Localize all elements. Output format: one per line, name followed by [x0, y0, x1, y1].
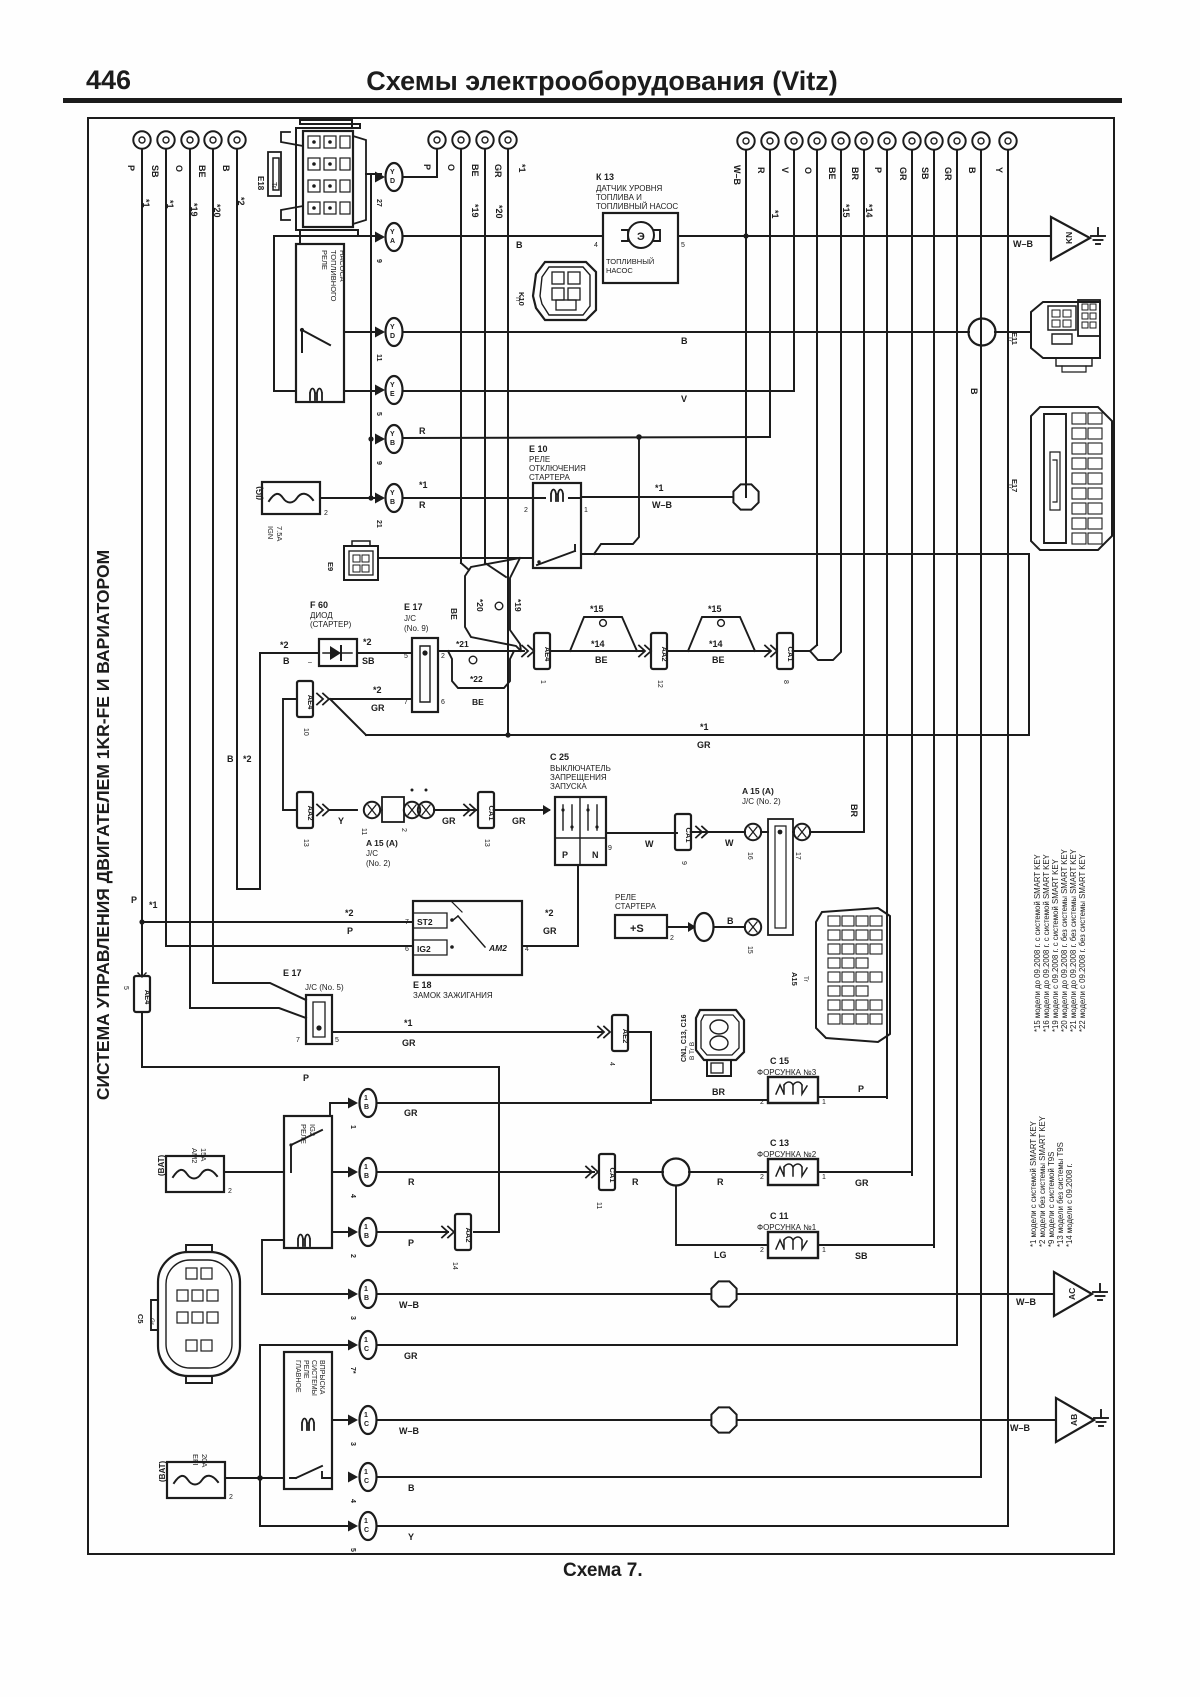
prongs left: [268, 132, 303, 220]
svg-text:W–B: W–B: [732, 165, 742, 186]
svg-text:ДИОД: ДИОД: [310, 611, 333, 620]
svg-text:*9 модели с системой T9S: *9 модели с системой T9S: [1047, 1152, 1056, 1247]
svg-text:W–B: W–B: [399, 1426, 420, 1436]
svg-text:P: P: [562, 850, 568, 860]
svg-text:B: B: [364, 1173, 369, 1180]
svg-text:P: P: [347, 926, 353, 936]
node P (left group): [126, 131, 151, 207]
svg-text:CA1: CA1: [608, 1167, 617, 1182]
wire B row y=1477: [378, 1476, 981, 1478]
svg-text:РЕЛЕ: РЕЛЕ: [302, 1360, 309, 1379]
svg-text:SB: SB: [150, 165, 160, 178]
wire P mid stub: [436, 149, 438, 177]
wire Y row y=1526: [378, 1525, 1008, 1527]
wire W-B right: [745, 150, 747, 497]
svg-text:6: 6: [441, 699, 445, 706]
svg-text:SB: SB: [920, 167, 930, 180]
svg-text:*13 модели без системы T9S: *13 модели без системы T9S: [1056, 1142, 1065, 1247]
node W-B (right group): [732, 132, 755, 185]
svg-text:GR: GR: [543, 926, 557, 936]
oval YA 9: [375, 223, 403, 263]
svg-text:E 10: E 10: [529, 444, 548, 454]
oval 1B R: [348, 1158, 377, 1198]
oval YB 9: [375, 425, 403, 465]
svg-text:10: 10: [302, 728, 309, 736]
svg-text:1: 1: [364, 1337, 368, 1344]
node P: [873, 132, 896, 173]
header rule: [63, 98, 1122, 103]
svg-text:15: 15: [746, 946, 753, 954]
wire W-B row y=1420 to AB ground: [378, 1419, 1056, 1421]
svg-text:*15: *15: [708, 604, 722, 614]
oval 1C GR: [348, 1331, 377, 1374]
svg-text:ДАТЧИК УРОВНЯ: ДАТЧИК УРОВНЯ: [596, 184, 663, 193]
wire GR *2 from J/C9 to AE4#10: [330, 698, 412, 700]
svg-text:*20: *20: [494, 205, 504, 219]
wire CA1 to nodes O/BE: [793, 645, 841, 660]
wire B right: [980, 150, 982, 1477]
svg-text:ТОПЛИВА И: ТОПЛИВА И: [596, 193, 642, 202]
node BE: [197, 131, 222, 217]
wire O right: [816, 150, 818, 645]
wire W-B row y=1294 to AC ground: [378, 1293, 1054, 1295]
svg-text:A: A: [390, 238, 395, 245]
coil return loop to W-B oval: [262, 1240, 354, 1294]
svg-text:D: D: [390, 178, 395, 185]
svg-text:B: B: [967, 167, 977, 174]
svg-text:*14 модели с 09.2008 г.: *14 модели с 09.2008 г.: [1065, 1163, 1074, 1247]
wire GR right: [911, 150, 913, 1175]
svg-text:P: P: [408, 1238, 414, 1248]
svg-text:2: 2: [670, 935, 674, 942]
wire W-B / fuel pump row y=236: [403, 235, 603, 237]
svg-text:R: R: [419, 500, 426, 510]
svg-text:AM2: AM2: [190, 1148, 199, 1163]
junction dot W-B at node 746: [743, 233, 748, 238]
svg-text:AA2: AA2: [464, 1227, 473, 1242]
wire IG fuse to oval YB21: [320, 497, 381, 499]
svg-text:1: 1: [364, 1095, 368, 1102]
svg-text:B: B: [727, 916, 734, 926]
svg-text:*2: *2: [280, 640, 289, 650]
svg-text:2: 2: [524, 507, 528, 514]
svg-text:2: 2: [760, 1247, 764, 1254]
svg-text:Y: Y: [390, 490, 395, 497]
svg-text:Tr: Tr: [270, 182, 277, 189]
svg-text:ОТКЛЮЧЕНИЯ: ОТКЛЮЧЕНИЯ: [529, 464, 586, 473]
svg-text:ФОРСУНКА №3: ФОРСУНКА №3: [757, 1068, 817, 1077]
wire R row y=1172: [378, 1171, 594, 1173]
svg-text:*15: *15: [841, 204, 851, 218]
svg-text:B: B: [408, 1483, 415, 1493]
node GR: [493, 131, 527, 178]
svg-text:ВПРЫСКА: ВПРЫСКА: [318, 1360, 325, 1395]
svg-text:CA1: CA1: [487, 805, 496, 820]
svg-text:4: 4: [349, 1194, 356, 1198]
node Y: [994, 132, 1017, 173]
svg-text:A 15 (A): A 15 (A): [742, 786, 774, 796]
svg-text:Y: Y: [390, 382, 395, 389]
svg-text:Tr: Tr: [1006, 483, 1013, 490]
feed wire from node B branch: [260, 652, 412, 654]
node GR: [943, 132, 966, 181]
svg-text:J/C: J/C: [366, 849, 378, 858]
svg-text:*1: *1: [419, 480, 428, 490]
svg-text:BE: BE: [472, 697, 484, 707]
svg-text:A 15 (A): A 15 (A): [366, 838, 398, 848]
svg-text:KN: KN: [1064, 232, 1074, 244]
svg-text:ФОРСУНКА №2: ФОРСУНКА №2: [757, 1150, 817, 1159]
wire B row y=332 to splice/E11: [403, 331, 969, 333]
svg-text:F 60: F 60: [310, 600, 328, 610]
svg-text:GR: GR: [442, 816, 456, 826]
svg-text:R: R: [632, 1177, 639, 1187]
svg-text:ЗАМОК ЗАЖИГАНИЯ: ЗАМОК ЗАЖИГАНИЯ: [413, 991, 493, 1000]
svg-text:W–B: W–B: [1016, 1297, 1037, 1307]
inner grid cells: [308, 136, 350, 214]
svg-text:9: 9: [375, 461, 382, 465]
wire R row y=436: [403, 437, 770, 438]
svg-text:GR: GR: [402, 1038, 416, 1048]
feeds from node BE and node O: [213, 983, 306, 1000]
upper variant funnel right edge: [510, 558, 521, 651]
svg-text:B: B: [283, 656, 290, 666]
wire V row y=391: [403, 390, 794, 392]
box AE4 pin1: [534, 633, 552, 684]
svg-text:4: 4: [349, 1499, 356, 1503]
svg-text:GR: GR: [512, 816, 526, 826]
svg-text:*2: *2: [363, 637, 372, 647]
svg-text:ЗАПУСКА: ЗАПУСКА: [550, 782, 587, 791]
svg-text:*16 модели до 09.2008 г. с си: *16 модели до 09.2008 г. с системой SMAR…: [1042, 853, 1051, 1032]
junction dots: [368, 436, 373, 441]
svg-text:7*: 7*: [349, 1367, 356, 1374]
svg-text:B: B: [681, 336, 688, 346]
branch up to R wire: [594, 437, 639, 554]
svg-text:2: 2: [760, 1099, 764, 1106]
right side pins to ovals: [344, 332, 379, 391]
svg-text:AE4: AE4: [543, 647, 552, 662]
oval 1B GR: [348, 1089, 377, 1129]
upper variant funnel left edge: [465, 558, 521, 651]
svg-text:BR: BR: [712, 1087, 725, 1097]
svg-text:(BAT): (BAT): [158, 1460, 167, 1482]
vertical bus x=371: [370, 174, 372, 498]
svg-text:C 15: C 15: [770, 1056, 789, 1066]
svg-text:E 17: E 17: [283, 968, 302, 978]
svg-text:C: C: [364, 1478, 369, 1485]
svg-text:B Tr B: B Tr B: [689, 1042, 696, 1060]
svg-text:–: –: [308, 659, 312, 666]
svg-text:2: 2: [441, 653, 445, 660]
svg-text:13: 13: [483, 839, 490, 847]
wire P left: [141, 149, 143, 976]
svg-text:*15: *15: [590, 604, 604, 614]
svg-text:ФОРСУНКА №1: ФОРСУНКА №1: [757, 1223, 817, 1232]
svg-text:AA2: AA2: [306, 805, 315, 820]
svg-text:ТОПЛИВНЫЙ: ТОПЛИВНЫЙ: [606, 257, 654, 266]
svg-text:GR: GR: [943, 167, 953, 181]
oval YD 27: [375, 163, 403, 207]
oval YD 11: [375, 318, 403, 362]
svg-text:AE2: AE2: [621, 1029, 630, 1044]
node BE: [470, 131, 504, 218]
svg-text:W–B: W–B: [1013, 239, 1034, 249]
svg-text:СИСТЕМА УПРАВЛЕНИЯ ДВИГАТЕЛЕМ: СИСТЕМА УПРАВЛЕНИЯ ДВИГАТЕЛЕМ 1KR-FE И В…: [93, 550, 113, 1100]
svg-text:N: N: [592, 850, 599, 860]
svg-text:EFI: EFI: [191, 1454, 200, 1466]
svg-text:O: O: [803, 167, 813, 174]
svg-text:Y: Y: [390, 431, 395, 438]
svg-text:4: 4: [525, 946, 529, 953]
svg-text:BE: BE: [470, 164, 480, 177]
oval 1C B: [348, 1463, 377, 1503]
node O: [174, 131, 199, 216]
svg-text:2: 2: [760, 1174, 764, 1181]
svg-text:2: 2: [400, 828, 407, 832]
wire AE4 to AA2 with variant bridge: [550, 617, 643, 651]
svg-text:1: 1: [364, 1412, 368, 1419]
pump motor: [628, 222, 654, 248]
wire BE left: [212, 149, 214, 983]
svg-text:*22: *22: [470, 674, 483, 684]
merge arrows into AE4: [522, 646, 534, 657]
wire AA2 to CA1 with variant bridge: [667, 617, 769, 651]
svg-text:SB: SB: [362, 656, 375, 666]
svg-text:Y: Y: [338, 816, 344, 826]
svg-text:3: 3: [349, 1316, 356, 1320]
pin boxes ST2 / IG2: [413, 913, 447, 955]
svg-text:BE: BE: [449, 608, 459, 620]
svg-text:5: 5: [681, 242, 685, 249]
wire BE right: [840, 150, 842, 651]
svg-text:1: 1: [364, 1224, 368, 1231]
node P (mid group): [422, 131, 446, 170]
svg-text:IGN: IGN: [266, 526, 275, 539]
svg-text:CN1, C13, C16: CN1, C13, C16: [681, 1014, 688, 1062]
svg-text:(СТАРТЕР): (СТАРТЕР): [310, 620, 352, 629]
svg-text:B: B: [390, 499, 395, 506]
svg-text:Gr: Gr: [148, 1318, 155, 1326]
svg-text:5: 5: [335, 1037, 339, 1044]
wire labels top: [419, 240, 688, 510]
svg-text:1: 1: [539, 680, 546, 684]
wire O left: [189, 149, 191, 1008]
svg-text:Y: Y: [390, 169, 395, 176]
svg-text:+S: +S: [630, 923, 644, 935]
svg-text:B: B: [364, 1295, 369, 1302]
svg-text:*21 модели до 09.2008 г. без: *21 модели до 09.2008 г. без системы SMA…: [1069, 848, 1078, 1032]
svg-text:E 17: E 17: [404, 602, 423, 612]
svg-text:21: 21: [375, 520, 382, 528]
svg-text:BE: BE: [595, 655, 608, 665]
svg-text:*20: *20: [475, 599, 485, 612]
svg-text:GR: GR: [898, 167, 908, 181]
ST2 wire from node P: [142, 921, 413, 923]
svg-text:НАСОСА: НАСОСА: [338, 250, 347, 282]
svg-text:2: 2: [228, 1188, 232, 1195]
svg-text:7: 7: [404, 699, 408, 706]
svg-text:AE4: AE4: [306, 695, 315, 710]
svg-text:12: 12: [656, 680, 663, 688]
oval YE 5: [375, 376, 403, 416]
wire oval YD27 to node P mid: [403, 176, 437, 178]
svg-text:E9: E9: [326, 562, 335, 571]
box AA2 pin12: [651, 633, 669, 688]
svg-text:CA1: CA1: [786, 646, 795, 661]
svg-text:5: 5: [375, 412, 382, 416]
svg-text:Э: Э: [637, 231, 645, 243]
svg-text:*2: *2: [345, 908, 354, 918]
oval 1C W-B: [348, 1406, 377, 1446]
svg-text:*14: *14: [591, 639, 605, 649]
left vertical feed to oval GR 1C7: [260, 1345, 354, 1477]
wire GR2 right: [956, 150, 958, 1345]
svg-text:E 18: E 18: [413, 980, 432, 990]
svg-text:CA1: CA1: [684, 827, 693, 842]
svg-text:P: P: [858, 1084, 864, 1094]
svg-text:Tr: Tr: [802, 976, 809, 983]
svg-text:P: P: [303, 1073, 309, 1083]
svg-text:R: R: [419, 426, 426, 436]
svg-text:Y: Y: [390, 229, 395, 236]
wire BR right: [863, 150, 865, 831]
riser from switch wire down to GR wire: [1028, 554, 1030, 735]
svg-text:ГЛАВНОЕ: ГЛАВНОЕ: [294, 1360, 301, 1393]
svg-text:B: B: [390, 440, 395, 447]
svg-text:BR: BR: [850, 167, 860, 180]
svg-text:13: 13: [302, 839, 309, 847]
svg-text:SB: SB: [855, 1251, 868, 1261]
svg-text:V: V: [780, 167, 790, 173]
wire SB left: [165, 149, 167, 946]
svg-text:*2: *2: [243, 754, 252, 764]
node V: [780, 132, 803, 173]
svg-text:*19 модели с 09.2008 г. с сис: *19 модели с 09.2008 г. с системой SMART…: [1051, 858, 1060, 1032]
svg-text:СТАРТЕРА: СТАРТЕРА: [529, 473, 570, 482]
svg-text:1: 1: [822, 1247, 826, 1254]
svg-text:РЕЛЕ: РЕЛЕ: [615, 893, 636, 902]
svg-text:7.5A: 7.5A: [275, 526, 284, 541]
svg-text:СТАРТЕРА: СТАРТЕРА: [615, 902, 656, 911]
svg-text:15A: 15A: [199, 1148, 208, 1161]
coil: [298, 1235, 310, 1247]
svg-text:C 25: C 25: [550, 752, 569, 762]
svg-text:GR: GR: [493, 164, 503, 178]
svg-text:B: B: [364, 1104, 369, 1111]
svg-text:AC: AC: [1067, 1288, 1077, 1300]
svg-text:11: 11: [595, 1202, 602, 1209]
svg-text:5: 5: [349, 1548, 356, 1552]
svg-text:W: W: [645, 839, 654, 849]
lower variant funnel BE *22: [448, 651, 514, 688]
svg-text:E18: E18: [256, 176, 265, 191]
svg-text:J/C: J/C: [404, 614, 416, 623]
left loop wire: [274, 236, 379, 391]
svg-text:ST2: ST2: [417, 917, 433, 927]
svg-text:2: 2: [229, 1494, 233, 1501]
svg-text:4: 4: [594, 242, 598, 249]
node O: [446, 131, 480, 217]
svg-text:W–B: W–B: [1010, 1423, 1031, 1433]
svg-text:27: 27: [375, 199, 382, 207]
svg-text:К 13: К 13: [596, 172, 614, 182]
svg-text:Tr: Tr: [1006, 336, 1013, 343]
node SB: [920, 132, 943, 180]
top pin wire to oval GR: [330, 1103, 354, 1116]
wire R right: [769, 150, 771, 436]
svg-text:J/C (No. 5): J/C (No. 5): [305, 983, 344, 992]
svg-text:*15 модели до 09.2008 г. с си: *15 модели до 09.2008 г. с системой SMAR…: [1033, 853, 1042, 1032]
svg-text:3: 3: [349, 1442, 356, 1446]
svg-text:1: 1: [349, 1125, 356, 1129]
svg-text:*1: *1: [770, 210, 780, 219]
svg-text:AE4: AE4: [143, 990, 152, 1005]
svg-text:AM2: AM2: [488, 943, 507, 953]
svg-text:ЗАПРЕЩЕНИЯ: ЗАПРЕЩЕНИЯ: [550, 773, 607, 782]
svg-text:P: P: [422, 164, 432, 170]
wire GR long: [366, 734, 1029, 736]
svg-text:BE: BE: [712, 655, 725, 665]
node B: [221, 131, 246, 205]
svg-text:W: W: [725, 838, 734, 848]
wire J/C9 to merge arrows: [438, 650, 524, 652]
svg-text:P: P: [126, 165, 136, 171]
svg-text:*1: *1: [700, 722, 709, 732]
branch down to Y row: [257, 1475, 263, 1481]
oval 1C Y: [348, 1512, 377, 1552]
switch output wire to far right riser: [581, 553, 1029, 555]
wire P row y=1232: [378, 1231, 448, 1233]
svg-text:СИСТЕМЫ: СИСТЕМЫ: [310, 1360, 317, 1396]
svg-text:6: 6: [405, 946, 409, 953]
svg-text:(IG): (IG): [255, 486, 264, 500]
svg-text:B: B: [221, 165, 231, 172]
switch: [290, 1466, 332, 1478]
svg-text:J/C (No. 2): J/C (No. 2): [742, 797, 781, 806]
svg-text:*21: *21: [456, 639, 469, 649]
stub from node O vertical into funnel: [461, 563, 469, 570]
node B: [967, 132, 990, 174]
svg-text:Y: Y: [994, 167, 1004, 173]
svg-text:9: 9: [375, 259, 382, 263]
left loop down to AA2#13: [283, 699, 297, 810]
svg-text:BE: BE: [827, 167, 837, 180]
svg-text:C5: C5: [136, 1314, 145, 1324]
svg-text:BE: BE: [197, 165, 207, 178]
svg-text:*14: *14: [709, 639, 723, 649]
node GR: [898, 132, 921, 181]
svg-text:РЕЛЕ: РЕЛЕ: [320, 250, 329, 270]
svg-text:R: R: [756, 167, 766, 174]
svg-text:W–B: W–B: [399, 1300, 420, 1310]
svg-text:*20 модели до 09.2008 г. без: *20 модели до 09.2008 г. без системы SMA…: [1060, 848, 1069, 1032]
wire O mid: [460, 149, 462, 563]
svg-text:AB: AB: [1069, 1414, 1079, 1426]
contact dots & lever AM2: [450, 918, 454, 922]
svg-text:(No. 9): (No. 9): [404, 624, 429, 633]
svg-text:B: B: [969, 388, 979, 395]
svg-text:IG2: IG2: [417, 944, 431, 954]
wire B left: [236, 149, 238, 889]
svg-text:7: 7: [296, 1037, 300, 1044]
oval 1B P: [348, 1218, 377, 1258]
svg-text:4: 4: [608, 1062, 615, 1066]
svg-text:446: 446: [86, 65, 131, 95]
svg-text:GR: GR: [404, 1108, 418, 1118]
wire SB right: [933, 150, 935, 1247]
feed wire from E18 to oval YD27: [366, 173, 381, 175]
